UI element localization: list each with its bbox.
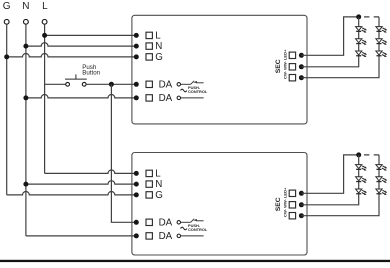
svg-text:DA: DA — [159, 79, 173, 90]
U2 pin labels L N G DA DA — [155, 168, 172, 242]
U2 left terminal dots — [134, 171, 139, 239]
U2 DA2 internal row — [177, 234, 204, 238]
svg-text:DA: DA — [159, 93, 173, 104]
LED D1 — [356, 27, 368, 34]
svg-text:Button: Button — [82, 70, 100, 77]
wire L to push button S1 — [45, 83, 66, 85]
U1 left terminal squares — [146, 32, 152, 101]
wire N bus to U2 pin N (hops riser) — [26, 181, 136, 184]
svg-text:CW- WW- LED+: CW- WW- LED+ — [282, 49, 287, 79]
svg-text:L: L — [155, 30, 161, 41]
junction N bus tap U2 — [23, 182, 28, 187]
wire G to U1 pin G (hops N and L buses) — [7, 54, 137, 57]
junction N bus tap U1 — [23, 44, 28, 49]
wire LED string left column U2 — [301, 155, 358, 205]
junction LED string top U1 — [356, 14, 361, 19]
push button S1 contacts — [65, 74, 87, 86]
LED D2 — [356, 39, 368, 46]
svg-text:L: L — [155, 168, 161, 179]
U1 PUSH-CONTROL label — [188, 85, 208, 94]
U1 push-control switch symbol — [177, 81, 204, 86]
U1 push-control tilde — [181, 89, 187, 92]
push button S1 label — [82, 64, 100, 77]
U2 push-control tilde — [181, 227, 187, 230]
U1 DA2 internal row — [177, 96, 204, 100]
svg-text:N: N — [155, 41, 162, 52]
driver U1 enclosure — [132, 15, 307, 124]
wire N vertical bus — [25, 24, 27, 236]
svg-text:CONTROL: CONTROL — [188, 89, 208, 94]
LED D3 — [356, 51, 368, 58]
junction L bus tap U1 — [42, 33, 47, 38]
wire N to U1 pin DA2 (hops L bus and riser) — [26, 95, 136, 98]
svg-text:SEC: SEC — [275, 197, 282, 211]
wire LED string right column U1 — [301, 17, 379, 78]
junction riser tap on DA wire — [109, 82, 114, 87]
wire push button to U1 pin DA — [86, 83, 136, 85]
svg-text:G: G — [155, 190, 163, 201]
U2 left terminal squares — [146, 170, 152, 239]
wire G vertical bus — [6, 24, 8, 195]
LED D11 — [376, 177, 388, 184]
dashed continuation wire U2 — [364, 154, 379, 156]
wire L vertical bus — [44, 24, 46, 173]
supply terminal L circle — [42, 19, 47, 24]
LED D8 — [356, 177, 368, 184]
LED D10 — [376, 165, 388, 172]
wire U1 LED+ to string tops — [301, 17, 358, 55]
U2 SEC terminal dots — [299, 191, 304, 218]
supply terminal N circle — [24, 19, 29, 24]
U1 SEC terminal squares — [289, 52, 295, 81]
LED D12 — [376, 189, 388, 196]
page rule line — [0, 260, 390, 262]
U2 SEC terminal squares — [289, 190, 295, 219]
svg-text:N: N — [22, 1, 29, 12]
LED D6 — [376, 51, 388, 58]
wire U2 LED+ to string tops — [301, 155, 358, 193]
LED D9 — [356, 189, 368, 196]
U1 SEC terminal dots — [299, 53, 304, 80]
driver U2 enclosure — [132, 153, 307, 256]
U2 push-control switch symbol — [177, 219, 204, 224]
LED D5 — [376, 39, 388, 46]
supply terminal G circle — [4, 19, 9, 24]
junction G bus tap — [4, 54, 9, 59]
svg-text:L: L — [42, 1, 48, 12]
svg-text:N: N — [155, 179, 162, 190]
wire L to U1 pin L — [45, 34, 137, 36]
wire DA riser to U2 pin DA — [111, 84, 136, 222]
wire LED string left column U1 — [301, 17, 358, 67]
U1 pin labels L N G DA DA — [155, 30, 172, 104]
junction N bus tap DA U1 — [23, 95, 28, 100]
junction LED string top U2 — [356, 152, 361, 157]
LED D4 — [376, 27, 388, 34]
wire L bus to U2 pin L (hops riser) — [45, 170, 137, 173]
svg-text:CW- WW- LED+: CW- WW- LED+ — [282, 187, 287, 217]
wire N to U1 pin N (hops L bus) — [26, 43, 136, 46]
svg-text:CONTROL: CONTROL — [188, 227, 208, 232]
wire G bus to U2 pin G (hops N bus and riser) — [7, 191, 137, 194]
svg-text:SEC: SEC — [275, 59, 282, 73]
svg-text:DA: DA — [159, 231, 173, 242]
svg-text:G: G — [3, 1, 11, 12]
svg-text:DA: DA — [159, 217, 173, 228]
dashed continuation wire U1 — [364, 16, 379, 18]
U2 PUSH-CONTROL label — [188, 223, 208, 232]
wire N bus to U2 pin DA2 — [26, 235, 136, 237]
svg-text:G: G — [155, 52, 163, 63]
wire LED string right column U2 — [301, 155, 379, 216]
LED D7 — [356, 165, 368, 172]
U1 left terminal dots — [134, 33, 139, 101]
